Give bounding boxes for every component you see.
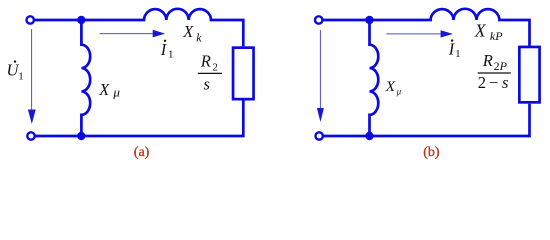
svg-text:1: 1 [455,48,461,60]
svg-text:X: X [98,80,110,99]
svg-text:kP: kP [490,29,503,43]
svg-text:(b): (b) [423,145,440,160]
svg-text:2P: 2P [494,59,508,73]
svg-text:μ: μ [112,85,120,100]
svg-text:s: s [204,75,210,94]
svg-text:(a): (a) [134,145,150,160]
svg-text:R: R [200,52,211,71]
svg-text:2: 2 [212,62,218,74]
svg-text:1: 1 [168,49,174,61]
svg-text:μ: μ [396,87,402,97]
svg-text:1: 1 [18,71,24,83]
svg-text:2−s: 2−s [478,73,509,92]
svg-text:k: k [196,30,202,44]
svg-text:X: X [182,22,194,41]
svg-text:R: R [482,51,493,70]
svg-text:X: X [474,20,487,40]
svg-text:X: X [385,79,396,95]
